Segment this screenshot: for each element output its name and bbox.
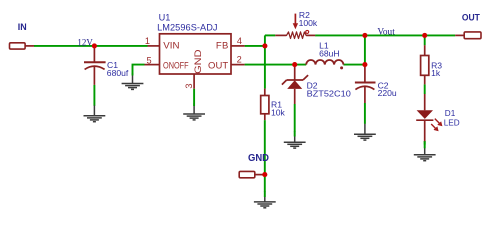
svg-text:220u: 220u — [378, 88, 397, 98]
svg-text:U1: U1 — [159, 12, 171, 22]
svg-text:1: 1 — [145, 36, 150, 46]
svg-text:12V: 12V — [77, 38, 93, 48]
svg-text:LED: LED — [444, 118, 460, 127]
svg-text:D1: D1 — [445, 109, 456, 118]
svg-text:Vout: Vout — [377, 27, 395, 37]
svg-text:OUT: OUT — [462, 11, 480, 22]
svg-text:OUT: OUT — [208, 61, 228, 72]
svg-text:5: 5 — [146, 56, 151, 66]
svg-text:IN: IN — [18, 21, 27, 32]
svg-text:GND: GND — [193, 49, 203, 74]
svg-text:100k: 100k — [299, 18, 318, 28]
svg-text:ONOFF: ONOFF — [163, 61, 189, 72]
svg-text:3: 3 — [184, 83, 194, 88]
svg-text:LM2596S-ADJ: LM2596S-ADJ — [157, 23, 217, 33]
svg-text:68uH: 68uH — [319, 49, 340, 59]
svg-text:1k: 1k — [431, 68, 441, 78]
svg-text:2: 2 — [237, 55, 242, 65]
svg-text:BZT52C10: BZT52C10 — [307, 89, 351, 99]
svg-text:GND: GND — [248, 153, 269, 164]
svg-text:10k: 10k — [271, 107, 286, 117]
svg-text:680uf: 680uf — [107, 68, 129, 78]
svg-text:4: 4 — [237, 36, 242, 46]
svg-text:VIN: VIN — [163, 40, 179, 51]
svg-text:FB: FB — [216, 40, 228, 51]
